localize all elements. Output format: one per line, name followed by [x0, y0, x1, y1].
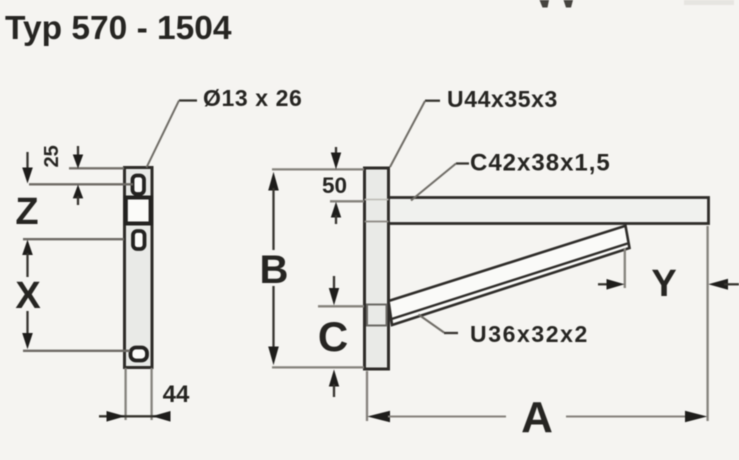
- upright channel U44x35x3: [365, 168, 389, 369]
- svg-text:50: 50: [322, 173, 347, 198]
- label U36x32x2 with leader: [419, 315, 589, 348]
- svg-text:B: B: [260, 248, 289, 292]
- svg-text:A: A: [521, 393, 553, 442]
- svg-text:Typ 570 - 1504: Typ 570 - 1504: [5, 10, 232, 47]
- slot hole top (Ø13x26): [133, 176, 145, 195]
- dimension 50: [321, 147, 348, 224]
- extension line hole 2 centre: [23, 238, 124, 240]
- dimension C: [318, 276, 348, 397]
- dimension B: [260, 172, 289, 365]
- extension line brace foot (C top): [318, 305, 364, 307]
- svg-text:25: 25: [41, 145, 63, 167]
- extension line hole 1 centre: [29, 183, 133, 185]
- brace inner lip line: [390, 244, 628, 320]
- dimension 25: [41, 145, 83, 205]
- dimension Y: [598, 248, 739, 305]
- svg-text:U36x32x2: U36x32x2: [470, 321, 589, 347]
- arm lines across upright: [365, 221, 389, 223]
- cropped text remnant top center: [540, 0, 574, 8]
- diagonal brace U36x32x2: [389, 226, 630, 325]
- extension line upright bottom: [272, 366, 364, 368]
- arm channel C42x38x1,5: [389, 198, 709, 224]
- svg-text:C: C: [318, 313, 348, 360]
- extension line hole (50): [330, 200, 364, 202]
- dimension X: [15, 253, 41, 349]
- wall plate (side view): [125, 168, 153, 368]
- label C42x38x1,5 with leader: [411, 150, 611, 201]
- svg-text:U44x35x3: U44x35x3: [447, 86, 558, 112]
- svg-text:44: 44: [163, 381, 190, 408]
- dimension Z: [15, 152, 38, 255]
- brace attachment box on upright: [367, 305, 387, 326]
- svg-text:Ø13 x 26: Ø13 x 26: [203, 85, 302, 111]
- svg-text:Z: Z: [15, 191, 38, 233]
- slot hole middle: [133, 231, 145, 249]
- extension line upright top: [272, 168, 364, 170]
- extension line plate top: [69, 167, 124, 169]
- slot hole bottom (horizontal): [131, 348, 148, 361]
- dimension 44: [99, 368, 190, 422]
- dimension A: [367, 226, 708, 442]
- svg-text:X: X: [15, 275, 41, 317]
- square opening in plate: [126, 198, 151, 224]
- label U44x35x3 with leader: [390, 86, 558, 167]
- faint cropped smudge top right: [684, 0, 734, 5]
- extension line hole 3 centre: [23, 350, 130, 352]
- svg-text:Y: Y: [651, 263, 676, 305]
- svg-text:C42x38x1,5: C42x38x1,5: [470, 150, 611, 177]
- label Ø13 x 26 with leader: [147, 85, 303, 168]
